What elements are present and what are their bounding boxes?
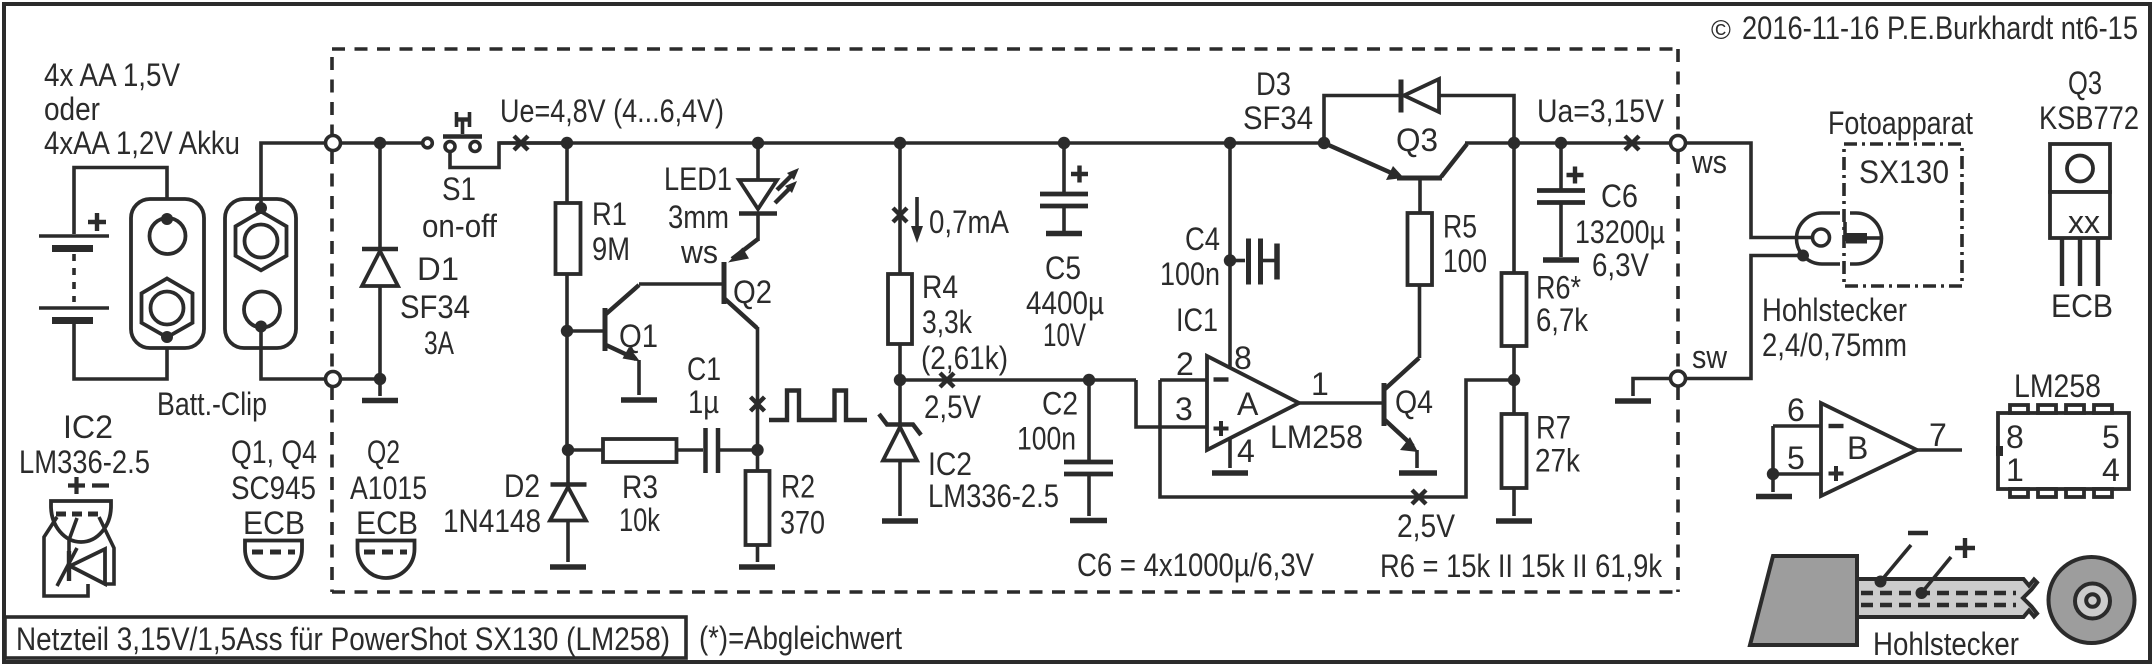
svg-text:(2,61k): (2,61k): [921, 340, 1008, 376]
svg-text:R2: R2: [781, 469, 815, 505]
svg-text:13200µ: 13200µ: [1575, 214, 1665, 250]
ground (C2): [1070, 518, 1107, 524]
svg-text:R6*: R6*: [1536, 270, 1581, 306]
svg-text:xx: xx: [2068, 204, 2100, 240]
wire sw to ground: [1633, 379, 1670, 397]
wire 2,5V reference line: [900, 378, 1136, 382]
svg-text:R4: R4: [922, 269, 958, 305]
diode D2 1N4148: [550, 450, 587, 562]
svg-text:10V: 10V: [1043, 317, 1086, 353]
svg-text:KSB772: KSB772: [2039, 100, 2139, 136]
svg-text:LM258: LM258: [1270, 419, 1363, 455]
svg-text:©: ©: [1711, 15, 1731, 45]
svg-text:4: 4: [1237, 433, 1255, 469]
op-amp B second half: [1767, 403, 1962, 496]
wire feedback: [1160, 380, 1514, 497]
wire clip2 to input nodes: [261, 143, 324, 379]
label R7: [1535, 410, 1581, 479]
label D2: [443, 468, 541, 539]
transistor Q1: [567, 285, 640, 395]
svg-text:4400µ: 4400µ: [1026, 285, 1104, 321]
diode D3 SF34: [1324, 79, 1514, 143]
svg-text:C6: C6: [1601, 178, 1638, 214]
title block: [5, 617, 686, 658]
svg-text:R6 = 15k II 15k II 61,9k: R6 = 15k II 15k II 61,9k: [1380, 548, 1663, 584]
measurement point R4: [893, 208, 907, 222]
capacitor C5 4400u: [1040, 143, 1088, 234]
wire top rail to switch: [341, 141, 423, 145]
svg-text:on-off: on-off: [422, 208, 497, 244]
label R5: [1443, 209, 1487, 280]
svg-text:6: 6: [1787, 392, 1805, 428]
svg-text:A1015: A1015: [350, 470, 427, 506]
junction C5 top: [1058, 137, 1070, 149]
label S1 on-off: [422, 171, 497, 244]
svg-text:1: 1: [1311, 366, 1329, 402]
waveform annotation: [769, 391, 867, 421]
capacitor C1 1u: [677, 428, 758, 473]
junction node 2,5V: [894, 374, 906, 386]
resistor R3 10k: [568, 439, 677, 462]
switch S1: [443, 112, 482, 152]
wire op-amp output to Q4 base: [1299, 401, 1382, 405]
svg-text:(*)=Abgleichwert: (*)=Abgleichwert: [699, 620, 902, 656]
label C6: [1575, 178, 1665, 283]
wire pin4 to ground: [1228, 438, 1232, 468]
svg-text:2,5V: 2,5V: [924, 389, 982, 425]
label IC2 schematic: [928, 446, 1059, 514]
junction C6 top: [1555, 137, 1567, 149]
wire pin2: [1160, 378, 1207, 382]
svg-text:LED1: LED1: [664, 161, 732, 197]
svg-text:ws: ws: [1691, 144, 1727, 180]
svg-text:3,3k: 3,3k: [922, 304, 973, 340]
resistor R7 27k: [1502, 380, 1527, 516]
label R4: [921, 269, 1008, 376]
output node sw (open circle): [1671, 371, 1686, 386]
node input plus (open circle): [326, 136, 341, 151]
package TO-92 Q1 Q4 SC945: [231, 434, 317, 578]
resistor R6* 6,7k: [1502, 143, 1527, 380]
ground (IC2): [882, 518, 918, 524]
svg-text:Hohlstecker: Hohlstecker: [1873, 626, 2019, 662]
svg-text:10k: 10k: [619, 502, 661, 538]
ground (D2): [550, 564, 586, 570]
junction C4: [1224, 254, 1236, 266]
resistor R4 3,3k: [888, 143, 912, 380]
svg-text:ECB: ECB: [243, 505, 305, 541]
svg-text:A: A: [1237, 386, 1259, 422]
wire ws to connector tip: [1686, 143, 1812, 238]
svg-text:9M: 9M: [592, 231, 630, 267]
node input minus (open circle): [326, 372, 341, 387]
junction R1 top: [561, 137, 573, 149]
op-amp IC1 A: [1207, 356, 1299, 450]
label R6*: [1536, 270, 1589, 339]
resistor R5 100: [1408, 213, 1433, 358]
svg-text:SC945: SC945: [231, 470, 316, 506]
battery clip 2: [225, 199, 296, 348]
svg-text:6,7k: 6,7k: [1536, 302, 1589, 338]
resistor R1 9M: [556, 143, 581, 450]
capacitor C4 100n: [1230, 239, 1277, 285]
LED1 3mm ws: [739, 143, 799, 241]
ground (IC1 pin4): [1212, 470, 1248, 476]
svg-text:100n: 100n: [1017, 421, 1076, 457]
svg-text:Q3: Q3: [1396, 122, 1438, 158]
svg-text:IC2: IC2: [63, 409, 113, 445]
svg-text:C1: C1: [687, 351, 721, 387]
svg-text:1: 1: [2006, 452, 2024, 488]
connector jack Hohlstecker: [1797, 213, 1882, 264]
svg-text:D1: D1: [417, 251, 459, 287]
ground (op-amp B): [1756, 494, 1792, 500]
label C2: [1017, 386, 1078, 457]
junction D1 bottom: [374, 373, 386, 385]
output node ws (open circle): [1671, 136, 1686, 151]
svg-text:Fotoapparat: Fotoapparat: [1828, 105, 1973, 141]
measurement point 2,5V: [940, 373, 954, 387]
label R1: [592, 196, 630, 267]
svg-text:2,5V: 2,5V: [1397, 508, 1456, 544]
svg-text:D2: D2: [504, 468, 540, 504]
svg-text:6,3V: 6,3V: [1592, 247, 1650, 283]
svg-text:Q3: Q3: [2068, 65, 2102, 101]
package Q3 KSB772 TO-220: [2050, 144, 2110, 286]
svg-text:S1: S1: [442, 171, 476, 207]
svg-text:LM258: LM258: [2014, 368, 2101, 404]
transistor Q3: [1324, 143, 1670, 213]
svg-text:SF34: SF34: [400, 289, 470, 325]
svg-text:sw: sw: [1692, 339, 1728, 375]
wire sw to connector sleeve: [1686, 256, 1799, 379]
svg-text:100: 100: [1443, 243, 1487, 279]
svg-text:100n: 100n: [1160, 256, 1220, 292]
svg-text:R5: R5: [1443, 209, 1477, 245]
capacitor C2 100n: [1064, 380, 1113, 516]
ground (sw): [1615, 398, 1651, 404]
svg-text:oder: oder: [44, 91, 100, 127]
label C5: [1026, 250, 1104, 353]
measurement point Q2 collector: [751, 397, 765, 411]
svg-text:C5: C5: [1045, 250, 1081, 286]
diode D1 SF34: [362, 143, 398, 379]
svg-text:IC1: IC1: [1176, 302, 1218, 338]
ground (Q4 emitter): [1399, 470, 1437, 476]
camera box Fotoapparat SX130: [1844, 144, 1962, 286]
measurement point feedback 2,5V: [1412, 490, 1426, 504]
junction R6 top: [1508, 137, 1520, 149]
svg-text:R3: R3: [622, 469, 658, 505]
svg-text:Q1: Q1: [619, 318, 658, 354]
svg-text:LM336-2.5: LM336-2.5: [928, 478, 1059, 514]
svg-text:8: 8: [1234, 340, 1252, 376]
svg-text:7: 7: [1929, 417, 1947, 453]
capacitor C6 13200u: [1537, 143, 1585, 260]
junction C1 R2: [751, 444, 763, 456]
plug drawing Hohlstecker: [1750, 533, 2135, 645]
junction R3 left: [562, 444, 574, 456]
reference diode IC2 LM336-2.5: [879, 380, 921, 516]
svg-text:ECB: ECB: [2051, 288, 2113, 324]
package LM258 DIP-8: [1996, 368, 2129, 497]
measurement point Ua: [1625, 136, 1639, 150]
junction R6 R7 feedback: [1508, 374, 1520, 386]
svg-text:C4: C4: [1185, 221, 1220, 257]
svg-text:C6 = 4x1000µ/6,3V: C6 = 4x1000µ/6,3V: [1077, 547, 1315, 583]
ground (R7): [1496, 518, 1532, 524]
junction R4 top: [894, 137, 906, 149]
svg-text:R1: R1: [592, 196, 627, 232]
junction Q3 emitter node: [1318, 137, 1330, 149]
junction D1 top: [374, 137, 386, 149]
svg-text:Q4: Q4: [1395, 384, 1433, 420]
svg-text:IC2: IC2: [928, 446, 972, 482]
svg-text:B: B: [1847, 430, 1868, 466]
svg-text:8: 8: [2006, 419, 2024, 455]
svg-text:Q1, Q4: Q1, Q4: [231, 434, 317, 470]
junction C2 top: [1083, 374, 1095, 386]
svg-text:LM336-2.5: LM336-2.5: [19, 444, 150, 480]
label LED1: [664, 161, 732, 270]
svg-text:0,7mA: 0,7mA: [929, 204, 1010, 240]
svg-text:2016-11-16 P.E.Burkhardt nt6-1: 2016-11-16 P.E.Burkhardt nt6-15: [1742, 10, 2138, 46]
switch S1 contact circle: [423, 138, 433, 148]
dashed enclosure main circuit: [332, 49, 1678, 592]
wire battery positive lead: [74, 168, 167, 235]
measurement point Ue: [514, 136, 528, 150]
svg-text:2: 2: [1176, 346, 1194, 382]
svg-text:Ue=4,8V (4...6,4V): Ue=4,8V (4...6,4V): [500, 93, 724, 129]
svg-text:Ua=3,15V: Ua=3,15V: [1537, 93, 1665, 129]
label Hohlstecker jack: [1762, 292, 1907, 363]
svg-text:1µ: 1µ: [688, 384, 719, 420]
svg-text:1N4148: 1N4148: [443, 503, 541, 539]
svg-text:5: 5: [1787, 440, 1805, 476]
package TO-92 Q2 A1015: [350, 434, 427, 578]
svg-text:Hohlstecker: Hohlstecker: [1762, 292, 1907, 328]
label D1: [400, 251, 470, 361]
label R2: [780, 469, 825, 541]
wire V+ to op-amp pin 8: [1228, 143, 1232, 368]
svg-text:SX130: SX130: [1859, 154, 1949, 190]
label Q3 KSB772: [2039, 65, 2139, 136]
junction C4 rail: [1224, 137, 1236, 149]
svg-text:SF34: SF34: [1243, 100, 1313, 136]
wire top rail middle: [499, 141, 1324, 145]
svg-text:C2: C2: [1042, 386, 1078, 422]
resistor R2 370: [746, 450, 770, 562]
svg-text:2,4/0,75mm: 2,4/0,75mm: [1762, 327, 1907, 363]
ground (Q1 emitter): [621, 397, 657, 403]
svg-text:4: 4: [2102, 452, 2120, 488]
label C4: [1160, 221, 1220, 292]
wire negative to D1: [341, 377, 381, 381]
svg-text:Batt.-Clip: Batt.-Clip: [157, 386, 267, 422]
svg-text:5: 5: [2102, 419, 2120, 455]
svg-text:Q2: Q2: [367, 434, 400, 470]
ground (R2): [739, 564, 775, 570]
svg-text:3A: 3A: [424, 325, 455, 361]
label R3: [619, 469, 661, 538]
battery clip 1: [131, 199, 204, 348]
label C1: [687, 351, 721, 420]
svg-text:Netzteil 3,15V/1,5Ass für Powe: Netzteil 3,15V/1,5Ass für PowerShot SX13…: [16, 621, 670, 657]
svg-text:3: 3: [1175, 391, 1193, 427]
current arrow 0,7mA: [911, 197, 1010, 243]
battery B1: [39, 213, 109, 321]
ground (input minus): [362, 379, 398, 401]
package IC2 LM336-2.5: [19, 409, 150, 596]
wire battery negative lead: [74, 323, 167, 380]
svg-text:R7: R7: [1536, 410, 1571, 446]
svg-text:4xAA 1,2V Akku: 4xAA 1,2V Akku: [44, 125, 240, 161]
junction LED1 top: [752, 137, 764, 149]
wire pin3: [1136, 380, 1207, 427]
svg-text:Q2: Q2: [733, 274, 772, 310]
junction Q1 base: [561, 325, 573, 337]
svg-text:4x AA 1,5V: 4x AA 1,5V: [44, 57, 181, 93]
wire switch bypass: [450, 143, 567, 168]
svg-text:ws: ws: [680, 234, 718, 270]
svg-text:3mm: 3mm: [668, 199, 729, 235]
svg-text:370: 370: [780, 505, 825, 541]
transistor Q2: [639, 239, 758, 450]
label D3: [1243, 66, 1313, 136]
svg-text:D3: D3: [1256, 66, 1291, 102]
svg-text:27k: 27k: [1535, 443, 1581, 479]
transistor Q4: [1384, 358, 1419, 468]
svg-text:ECB: ECB: [356, 505, 418, 541]
